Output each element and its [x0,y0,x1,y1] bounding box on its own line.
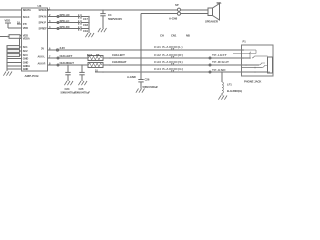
pin stub y24 [17,23,22,25]
svg-text:1T: 1T [171,55,174,59]
wire vdda drop [19,39,21,48]
svg-text:CH2 B-AUDIO(R): CH2 B-AUDIO(R) [154,53,183,57]
node jack row3 entry [245,64,247,66]
jack tip switch loop [233,50,256,58]
svg-text:U3: U3 [38,4,42,8]
svg-text:NA1: NA1 [87,53,93,57]
resistor R3 [7,54,20,57]
node TP-LEFT flag [209,57,211,59]
svg-text:R5: R5 [96,53,100,57]
svg-text:1T: 1T [171,62,174,66]
jack sleeve link [268,71,271,73]
node TP-RIGHT flag [209,64,211,66]
jack contact row3 hook [259,63,265,65]
node row4 dot1 [102,71,104,73]
ground (C25) [78,81,87,85]
svg-text:C26: C26 [145,78,150,82]
wire cap common [88,17,90,34]
node jack row1 entry [242,49,244,51]
capacitor C18 [79,20,89,24]
ground (cap common) [85,33,94,37]
wire right pin y22.5 [48,22,81,24]
svg-text:CH1 B-AUDIO(L): CH1 B-AUDIO(L) [154,45,183,49]
wire left pin row y10 [0,9,22,11]
svg-text:GND: GND [23,67,29,71]
wire speaker return [141,13,177,15]
svg-text:VDD: VDD [23,26,28,30]
resistor R1 [7,46,20,49]
svg-text:P1: P1 [243,40,247,44]
wire row1 CH1 [48,49,244,51]
wire SPKOUT top net [48,9,178,11]
svg-text:50WV/100V: 50WV/100V [108,17,122,21]
wire left bus [6,47,8,71]
ground (C26) [136,89,145,93]
svg-text:CH4 B-AUDIO(G): CH4 B-AUDIO(G) [154,67,183,71]
svg-text:AUX-L: AUX-L [38,54,46,58]
svg-text:50WV/470uF: 50WV/470uF [75,90,91,94]
svg-text:TP-LEFT: TP-LEFT [212,53,227,57]
svg-text:C19: C19 [83,29,88,33]
wire bead to pins [20,35,22,37]
resistor R2 [7,50,20,53]
op-amp U3 (amplifier IC box) [22,8,48,71]
svg-text:SPEAKER: SPEAKER [205,20,218,24]
node jack row4 dot [254,71,256,73]
node flag y22.5 [57,22,59,24]
node coil junction [221,71,223,73]
jack internal contact y67.5 [242,67,263,69]
svg-text:AMP-PCB: AMP-PCB [25,74,40,78]
inductor L1 [222,72,223,96]
jack contact row2 hook [252,56,254,58]
node jack row2 link [249,57,251,59]
svg-text:A-GND: A-GND [127,75,136,79]
node TP-GND flag [209,71,211,73]
svg-text:SC2: SC2 [23,49,28,53]
svg-text:LF1: LF1 [227,83,232,87]
svg-text:VDDA: VDDA [23,37,30,41]
node jack row2 entry [242,57,244,59]
wire row3 CH3 [48,64,89,66]
node flag row3 [57,64,59,66]
node row4 junction with return [140,71,142,73]
node flag row2 [57,57,59,59]
ferrite bead FB1 [9,35,20,39]
speaker SP1 [208,4,220,21]
capacitor C26 [138,80,143,89]
svg-text:CH: CH [160,34,164,38]
svg-text:SPK-HC: SPK-HC [60,13,70,17]
svg-text:SC3: SC3 [23,53,28,57]
svg-text:SP1: SP1 [217,1,223,5]
ground (C24) [64,81,73,85]
svg-text:PHONE JACK: PHONE JACK [244,80,261,84]
svg-text:SPKOUT: SPKOUT [39,8,50,12]
svg-text:SPK-M: SPK-M [39,15,47,19]
svg-text:C17: C17 [83,17,88,21]
svg-text:CH0-RIGHT: CH0-RIGHT [60,61,75,65]
svg-text:SP: SP [175,3,179,7]
node flag y16.5 [57,16,59,18]
wire row4 A-GND [95,71,268,73]
node row2 dot [109,57,111,59]
svg-text:B-AUDIO(G): B-AUDIO(G) [227,89,242,93]
node flag 3.3V [56,49,58,51]
ground (C4) [98,28,107,32]
svg-text:CH0-LEFT: CH0-LEFT [60,54,73,58]
svg-text:SDATA: SDATA [23,8,31,12]
node cap25 junction [81,64,83,66]
node C4 junction [102,9,104,11]
capacitor C4 [100,10,105,28]
svg-text:GND: GND [23,61,29,65]
wire bus to pins [7,58,22,60]
capacitor C19 [79,26,89,30]
connector CN6 circles [177,8,180,11]
svg-text:NB: NB [186,34,190,38]
svg-text:CH0-RIGHT: CH0-RIGHT [112,60,127,64]
node row3 dot [109,64,111,66]
resistor NA1 [88,56,103,61]
node bus junctions [6,46,7,47]
svg-text:SPK-RC: SPK-RC [60,25,70,29]
wire right pin y16.5 [48,16,81,18]
svg-text:CH3 B-AUDIO(S): CH3 B-AUDIO(S) [154,60,183,64]
svg-text:XTI: XTI [23,22,27,26]
svg-text:C18: C18 [83,23,88,27]
svg-text:3.3V: 3.3V [60,46,66,50]
svg-text:SPK-LC: SPK-LC [60,19,70,23]
svg-text:1T: 1T [171,69,174,73]
svg-text:1T: 1T [171,47,174,51]
wire VDD feed [0,36,9,38]
VDD power symbol [5,23,22,28]
wire right pin y28.5 [48,28,81,30]
wire resistor outputs [20,46,22,48]
jack plug barrel [268,57,273,73]
node flag y28.5 [57,28,59,30]
svg-text:CN1: CN1 [171,34,177,38]
svg-text:SPREF: SPREF [39,27,48,31]
connector P1 headphone jack [242,45,274,76]
ground (L1) [218,96,227,100]
svg-text:SC1: SC1 [23,45,28,49]
svg-text:VDD: VDD [5,19,11,23]
capacitor C17 [79,14,89,18]
capacitor C25 [79,65,84,81]
capacitor C24 [65,65,70,81]
ground (left bus) [3,72,12,76]
svg-text:GND: GND [23,57,29,61]
svg-text:TP-RIGHT: TP-RIGHT [212,60,229,64]
resistor R5 [88,63,103,68]
wire left pin row y17 [0,16,22,18]
svg-text:SCLK: SCLK [23,15,30,19]
wire connector to speaker minus [181,13,208,15]
svg-text:TP-GND: TP-GND [212,68,226,72]
svg-text:50WV/100uF: 50WV/100uF [143,85,159,89]
svg-text:3V: 3V [41,46,44,50]
wire connector to speaker plus [181,9,208,11]
wire row2 CH2 [48,57,89,59]
svg-text:SPK-P: SPK-P [39,21,47,25]
svg-text:CH0-LEFT: CH0-LEFT [112,53,125,57]
node cap24 junction [67,64,69,66]
svg-text:AUX-R: AUX-R [38,61,46,65]
svg-text:A-CN6: A-CN6 [169,17,178,21]
